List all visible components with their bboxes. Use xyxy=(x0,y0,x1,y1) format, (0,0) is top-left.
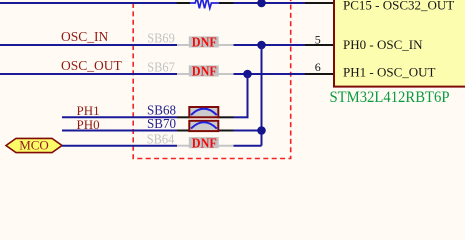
svg-text:PC15 - OSC32_OUT: PC15 - OSC32_OUT xyxy=(343,0,454,13)
solder bridge SB70 body xyxy=(189,121,218,131)
vertical wire OSC_IN to MCO xyxy=(261,45,263,146)
solder bridge SB68 body xyxy=(189,107,218,117)
svg-text:DNF: DNF xyxy=(192,65,217,80)
wire OSC_OUT right xyxy=(234,73,306,75)
resistor R zigzag body xyxy=(190,0,219,8)
DNF group outline (dashed red box) xyxy=(133,0,291,159)
SB64 lead right (gray) xyxy=(217,145,234,147)
SB64 lead left (gray) xyxy=(177,145,190,147)
SB69 DNF label box xyxy=(189,36,219,47)
resistor R lead left xyxy=(177,2,191,4)
SB70 lead left xyxy=(177,130,190,132)
wire PH0 to junction xyxy=(234,130,262,132)
SB69 lead left (gray) xyxy=(177,44,190,46)
svg-text:SB68: SB68 xyxy=(147,103,176,118)
wire PH1 to vertical xyxy=(234,116,249,118)
svg-text:STM32L412RBT6P: STM32L412RBT6P xyxy=(330,89,450,106)
vertical wire OSC_OUT to PH1 xyxy=(247,74,249,117)
svg-text:SB69: SB69 xyxy=(147,32,175,47)
SB67 lead left (gray) xyxy=(177,73,190,75)
svg-text:SB64: SB64 xyxy=(147,132,175,147)
SB64 DNF label box xyxy=(189,137,219,148)
svg-text:SB70: SB70 xyxy=(147,117,176,132)
junction dot PH0 xyxy=(257,126,266,135)
SB69 lead right (gray) xyxy=(217,44,234,46)
pin 5 line xyxy=(305,44,334,46)
wire OSC_OUT left xyxy=(0,73,177,75)
SB68 lead right xyxy=(218,116,234,118)
svg-text:MCO: MCO xyxy=(19,138,49,153)
svg-text:DNF: DNF xyxy=(192,136,217,151)
wire OSC_IN left xyxy=(0,44,177,46)
svg-text:6: 6 xyxy=(315,60,321,74)
svg-text:PH1: PH1 xyxy=(77,103,100,118)
svg-text:PH1 - OSC_OUT: PH1 - OSC_OUT xyxy=(343,65,436,80)
pin 6 line xyxy=(305,73,334,75)
wire OSC_IN right xyxy=(234,44,306,46)
svg-text:SB67: SB67 xyxy=(147,61,175,76)
svg-text:OSC_IN: OSC_IN xyxy=(61,29,109,44)
svg-text:OSC_OUT: OSC_OUT xyxy=(61,58,123,73)
wire PH1 xyxy=(62,116,177,118)
SB70 bridge arc xyxy=(191,122,217,128)
junction dot OSC_IN xyxy=(257,41,266,50)
wire PC15 net (top horizontal) xyxy=(0,2,177,4)
junction dot on PC15 net xyxy=(257,0,266,7)
SB70 lead right xyxy=(218,130,234,132)
svg-text:5: 5 xyxy=(315,32,321,46)
port MCO xyxy=(6,138,62,152)
SB68 bridge arc xyxy=(191,109,217,115)
SB68 lead left xyxy=(177,116,190,118)
resistor R lead right xyxy=(219,2,234,4)
wire MCO to vertical xyxy=(234,145,262,147)
wire top right segment xyxy=(234,2,306,4)
wire PH0 xyxy=(62,130,177,132)
junction dot OSC_OUT xyxy=(243,70,252,79)
SB67 DNF label box xyxy=(189,65,219,76)
wire MCO xyxy=(62,145,177,147)
IC U1 body (STM32) xyxy=(334,0,465,87)
SB67 lead right (gray) xyxy=(217,73,234,75)
svg-text:PH0 - OSC_IN: PH0 - OSC_IN xyxy=(343,37,423,52)
pin 4 line (PC15) xyxy=(305,2,334,4)
svg-text:DNF: DNF xyxy=(192,36,217,51)
